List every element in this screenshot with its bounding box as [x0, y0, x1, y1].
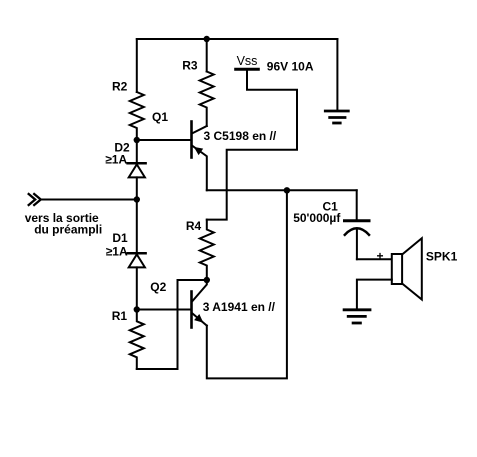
- svg-text:96V 10A: 96V 10A: [267, 59, 314, 73]
- svg-text:3 C5198 en //: 3 C5198 en //: [204, 129, 277, 143]
- resistor R4: [186, 219, 214, 280]
- transistor Q2: [150, 280, 207, 328]
- wire output: [207, 189, 357, 191]
- svg-text:R1: R1: [112, 309, 128, 323]
- wire input: [41, 199, 137, 201]
- transistor Q1: [152, 110, 207, 191]
- wire R3 top lead: [206, 39, 208, 72]
- wire Q2 base: [137, 309, 192, 311]
- wire Vss feed to R4: [207, 71, 297, 220]
- svg-text:R3: R3: [182, 59, 198, 73]
- connector input (vers la sortie du preampli): [25, 193, 103, 236]
- svg-text:≥1A: ≥1A: [105, 152, 127, 166]
- node R4 / Q2 collector / loop: [204, 277, 210, 283]
- ground top right: [325, 39, 348, 123]
- node input / D2 / D1: [134, 196, 140, 202]
- capacitor C1: [293, 190, 369, 259]
- svg-text:D1: D1: [112, 231, 128, 245]
- svg-text:50'000µf: 50'000µf: [293, 211, 341, 225]
- ground bottom (speaker): [344, 310, 370, 323]
- power Vss: [236, 54, 314, 74]
- speaker SPK1: [357, 238, 458, 309]
- svg-text:SPK1: SPK1: [426, 249, 458, 263]
- wire Q2 emitter to output node: [207, 190, 287, 378]
- diode D1: [106, 200, 146, 310]
- node base Q2 / D1 / R1: [134, 306, 140, 312]
- node output / C1: [284, 187, 290, 193]
- svg-text:Vss: Vss: [237, 54, 258, 68]
- svg-text:≥1A: ≥1A: [106, 245, 128, 259]
- wire top supply rail: [137, 38, 338, 40]
- wire Q1 base: [137, 139, 192, 141]
- node base Q1 / R2 / D2: [134, 137, 140, 143]
- svg-text:R2: R2: [112, 80, 128, 94]
- svg-text:+: +: [377, 249, 384, 263]
- resistor R3: [182, 59, 214, 126]
- svg-text:R4: R4: [186, 219, 202, 233]
- svg-text:Q2: Q2: [150, 280, 166, 294]
- svg-text:Q1: Q1: [152, 110, 168, 124]
- svg-text:3 A1941 en //: 3 A1941 en //: [203, 300, 276, 314]
- diode D2: [105, 140, 145, 200]
- wire R1 bottom loop to R4 node: [137, 280, 207, 369]
- resistor R2: [112, 80, 144, 140]
- wire R2 top lead: [136, 39, 138, 92]
- svg-text:du préampli: du préampli: [34, 222, 102, 236]
- resistor R1: [112, 309, 144, 369]
- node top rail / R3: [204, 36, 210, 42]
